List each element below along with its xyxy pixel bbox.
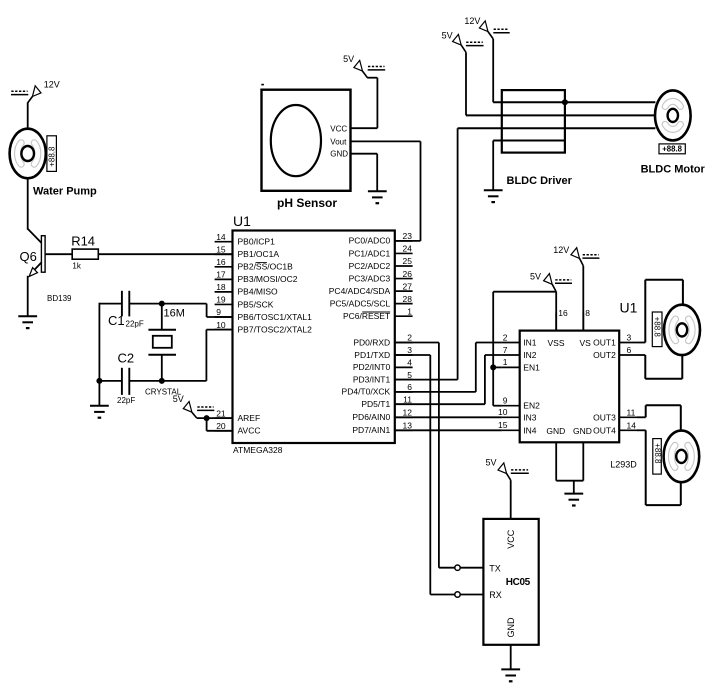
svg-text:25: 25	[403, 256, 413, 266]
svg-text:PD4/T0/XCK: PD4/T0/XCK	[342, 387, 391, 397]
svg-text:6: 6	[627, 345, 632, 355]
svg-text:AVCC: AVCC	[238, 426, 261, 436]
svg-text:PD1/TXD: PD1/TXD	[354, 350, 390, 360]
svg-text:11: 11	[403, 394, 412, 404]
svg-text:+88.8: +88.8	[653, 443, 662, 464]
svg-text:+88.8: +88.8	[47, 146, 56, 167]
svg-text:VS: VS	[580, 338, 592, 348]
svg-text:GND: GND	[573, 426, 592, 436]
svg-text:6: 6	[407, 382, 412, 392]
svg-text:PB7/TOSC2/XTAL2: PB7/TOSC2/XTAL2	[238, 324, 313, 334]
svg-text:BLDC Motor: BLDC Motor	[641, 163, 706, 175]
svg-text:BLDC Driver: BLDC Driver	[507, 175, 573, 187]
svg-text:12V: 12V	[464, 16, 480, 26]
svg-text:AREF: AREF	[238, 413, 261, 423]
svg-text:C1: C1	[108, 313, 125, 328]
svg-text:5: 5	[407, 370, 412, 380]
svg-text:PD3/INT1: PD3/INT1	[353, 374, 391, 384]
svg-text:GND: GND	[546, 426, 565, 436]
svg-text:PC6/RESET: PC6/RESET	[343, 311, 390, 321]
svg-text:PC4/ADC4/SDA: PC4/ADC4/SDA	[329, 286, 391, 296]
svg-text:13: 13	[403, 421, 413, 431]
svg-text:PB1/OC1A: PB1/OC1A	[238, 249, 280, 259]
svg-text:16: 16	[558, 308, 568, 318]
svg-text:VCC: VCC	[330, 125, 347, 134]
svg-text:26: 26	[403, 269, 413, 279]
svg-text:OUT4: OUT4	[593, 425, 616, 435]
svg-text:7: 7	[503, 345, 508, 355]
svg-text:1k: 1k	[72, 261, 81, 270]
svg-text:1: 1	[407, 306, 412, 316]
svg-text:21: 21	[216, 408, 226, 418]
svg-text:OUT3: OUT3	[593, 412, 616, 422]
svg-text:PB3/MOSI/OC2: PB3/MOSI/OC2	[238, 274, 298, 284]
svg-text:IN2: IN2	[523, 350, 537, 360]
svg-text:15: 15	[216, 244, 226, 254]
svg-text:23: 23	[403, 231, 413, 241]
svg-text:OUT2: OUT2	[593, 350, 616, 360]
svg-text:5V: 5V	[343, 54, 354, 64]
svg-text:PD7/AIN1: PD7/AIN1	[352, 425, 390, 435]
svg-text:U1: U1	[233, 213, 251, 229]
svg-text:5V: 5V	[530, 271, 541, 281]
svg-text:1: 1	[503, 357, 508, 367]
svg-text:22pF: 22pF	[126, 320, 144, 329]
svg-text:+88.8: +88.8	[662, 145, 682, 154]
svg-text:U1: U1	[620, 299, 638, 315]
svg-text:22pF: 22pF	[117, 396, 135, 405]
svg-text:EN1: EN1	[523, 362, 540, 372]
svg-text:2: 2	[407, 333, 412, 343]
svg-text:PB4/MISO: PB4/MISO	[238, 287, 279, 297]
svg-text:10: 10	[216, 320, 226, 330]
svg-text:Q6: Q6	[20, 249, 37, 264]
svg-text:VSS: VSS	[547, 338, 564, 348]
svg-text:PC3/ADC3: PC3/ADC3	[349, 273, 391, 283]
svg-text:PD6/AIN0: PD6/AIN0	[352, 412, 390, 422]
svg-text:PD5/T1: PD5/T1	[361, 399, 390, 409]
svg-text:ATMEGA328: ATMEGA328	[233, 445, 283, 455]
svg-text:PC0/ADC0: PC0/ADC0	[349, 236, 391, 246]
svg-text:4: 4	[407, 358, 412, 368]
svg-text:IN4: IN4	[523, 425, 537, 435]
svg-text:9: 9	[503, 396, 508, 406]
svg-text:HC05: HC05	[506, 577, 531, 588]
svg-text:11: 11	[627, 408, 636, 418]
svg-text:10: 10	[498, 407, 508, 417]
svg-text:PC1/ADC1: PC1/ADC1	[349, 248, 391, 258]
svg-text:RX: RX	[489, 590, 502, 600]
svg-text:28: 28	[403, 294, 413, 304]
svg-text:15: 15	[498, 420, 508, 430]
svg-text:VCC: VCC	[506, 529, 516, 549]
svg-text:19: 19	[216, 295, 226, 305]
svg-text:L293D: L293D	[610, 459, 637, 469]
svg-text:18: 18	[216, 282, 226, 292]
svg-text:GND: GND	[506, 617, 516, 638]
svg-text:12: 12	[403, 408, 413, 418]
svg-text:PC5/ADC5/SCL: PC5/ADC5/SCL	[330, 298, 391, 308]
svg-text:24: 24	[403, 244, 413, 254]
svg-text:12V: 12V	[44, 79, 60, 89]
svg-text:9: 9	[216, 307, 221, 317]
svg-text:+88.8: +88.8	[652, 317, 661, 338]
svg-text:14: 14	[216, 232, 226, 242]
svg-text:PC2/ADC2: PC2/ADC2	[349, 261, 391, 271]
svg-text:Water Pump: Water Pump	[33, 185, 97, 197]
svg-text:5V: 5V	[173, 394, 184, 404]
svg-text:3: 3	[407, 345, 412, 355]
svg-text:27: 27	[403, 281, 413, 291]
svg-text:20: 20	[216, 421, 226, 431]
svg-text:PB0/ICP1: PB0/ICP1	[238, 237, 276, 247]
svg-text:OUT1: OUT1	[593, 338, 616, 348]
svg-text:C2: C2	[118, 351, 135, 366]
svg-text:12V: 12V	[553, 245, 569, 255]
svg-text:IN1: IN1	[523, 338, 537, 348]
svg-text:PB6/TOSC1/XTAL1: PB6/TOSC1/XTAL1	[238, 312, 313, 322]
svg-text:2: 2	[503, 332, 508, 342]
svg-text:16: 16	[216, 257, 226, 267]
svg-text:PB5/SCK: PB5/SCK	[238, 299, 274, 309]
svg-text:17: 17	[216, 270, 226, 280]
svg-text:pH Sensor: pH Sensor	[277, 196, 337, 210]
svg-text:TX: TX	[489, 563, 501, 573]
svg-text:EN2: EN2	[523, 401, 540, 411]
svg-text:PD0/RXD: PD0/RXD	[353, 337, 390, 347]
svg-text:5V: 5V	[486, 458, 497, 468]
svg-text:Vout: Vout	[330, 137, 347, 146]
svg-text:BD139: BD139	[47, 294, 72, 303]
svg-text:IN3: IN3	[523, 412, 537, 422]
svg-text:PB2/SS/OC1B: PB2/SS/OC1B	[238, 262, 294, 272]
svg-text:GND: GND	[330, 150, 348, 159]
svg-text:14: 14	[627, 421, 637, 431]
svg-text:R14: R14	[71, 233, 95, 248]
svg-text:8: 8	[585, 308, 590, 318]
svg-text:3: 3	[627, 333, 632, 343]
svg-text:PD2/INT0: PD2/INT0	[353, 362, 391, 372]
svg-text:5V: 5V	[442, 30, 453, 40]
svg-text:16M: 16M	[164, 307, 185, 319]
